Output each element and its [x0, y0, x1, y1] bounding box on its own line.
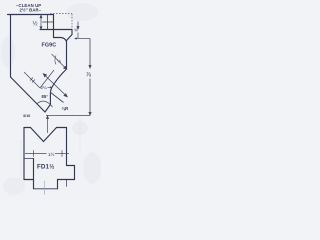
die V notch — [31, 128, 57, 142]
die tang bottom — [34, 188, 58, 190]
tang inner corner — [43, 21, 54, 23]
die tang right — [57, 180, 59, 189]
punch right flank to tip — [45, 69, 67, 112]
svg-text:⅛R: ⅛R — [62, 106, 70, 111]
faint scan extension lines — [21, 118, 80, 178]
extension line tip plane — [46, 115, 90, 117]
die right lower stub — [66, 180, 68, 187]
die right edge — [66, 128, 68, 166]
dim 3/8 groove depth — [77, 22, 79, 39]
die top left — [24, 127, 31, 129]
die left edge — [23, 128, 25, 180]
punch top edge — [8, 14, 54, 16]
svg-text:⅜: ⅜ — [74, 28, 78, 33]
svg-text:FG9C: FG9C — [42, 43, 57, 49]
throat dim parallel to flank — [24, 70, 54, 88]
1/8 R tip radius leader — [50, 92, 64, 103]
die tang left — [33, 159, 35, 189]
diag dim upper 1/8 radius — [52, 54, 67, 69]
punch left edge — [10, 15, 12, 78]
die centerline — [44, 181, 46, 195]
punch tang right edge — [53, 15, 55, 38]
die bottom left — [24, 179, 34, 181]
svg-text:3/16: 3/16 — [23, 114, 30, 118]
vertical dim 7/8 right — [89, 39, 91, 116]
dim 1-1/2 V opening — [25, 150, 69, 157]
die outline — [24, 128, 75, 195]
svg-text:⅛: ⅛ — [57, 59, 61, 64]
extension line right — [77, 38, 91, 40]
svg-text:1½: 1½ — [48, 151, 55, 157]
phantom bar outline (clean-up) — [50, 14, 72, 30]
diag dim lower 2-1/4 throat — [43, 74, 67, 97]
svg-text:2½″ BAR–: 2½″ BAR– — [20, 8, 42, 13]
note CLEAN UP 2-1/2 BAR — [16, 3, 42, 13]
svg-text:FD1½: FD1½ — [37, 164, 54, 171]
dim 1/2 tang height — [40, 15, 42, 29]
punch left flank 45deg — [11, 77, 46, 112]
svg-text:85°: 85° — [42, 94, 49, 99]
svg-text:2¼: 2¼ — [41, 85, 47, 90]
die internal step — [24, 158, 34, 160]
die right tab — [67, 166, 75, 180]
outer lip chamfer — [67, 30, 73, 70]
die top right — [57, 127, 67, 129]
die bottom right — [58, 179, 67, 181]
punch shoulder line — [40, 29, 72, 31]
svg-text:⅞: ⅞ — [86, 72, 92, 79]
groove bottom ledge — [54, 38, 67, 42]
svg-text:½: ½ — [33, 21, 38, 28]
dim below tip — [47, 116, 49, 133]
faint scan mottle — [1, 3, 101, 195]
